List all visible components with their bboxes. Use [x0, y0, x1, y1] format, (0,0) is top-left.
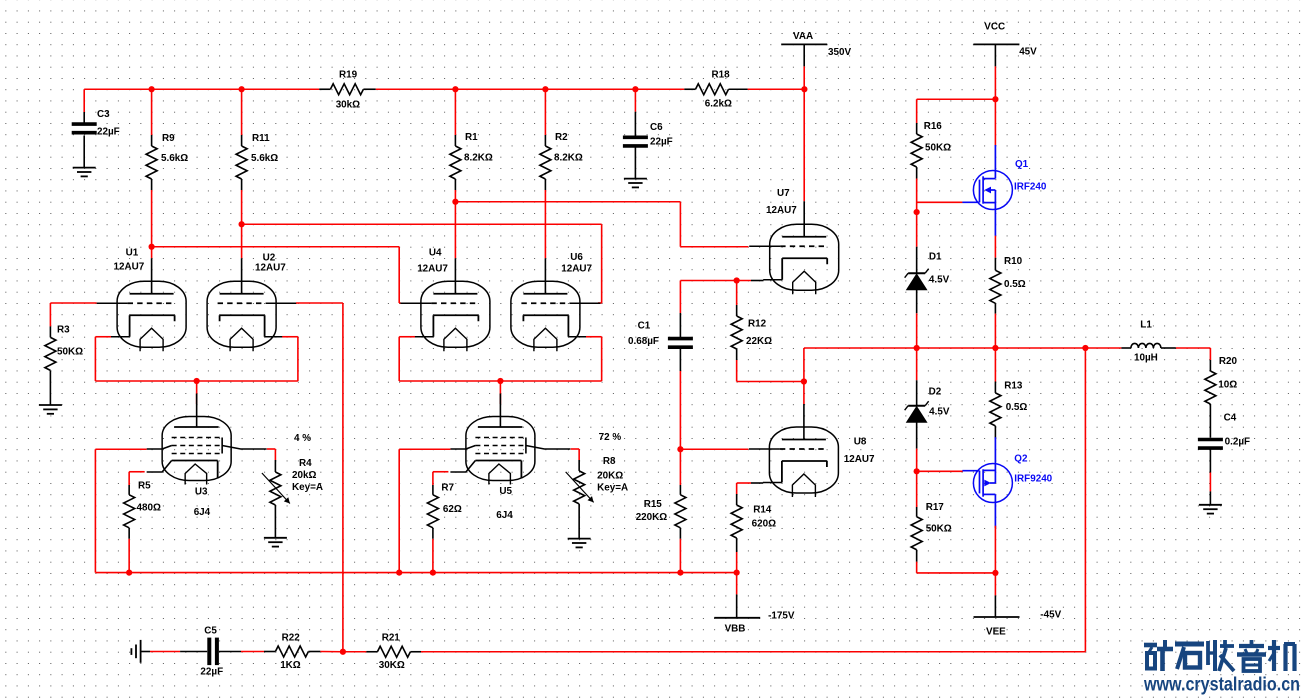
node R14-VBB on bus [734, 570, 740, 576]
svg-text:10µH: 10µH [1134, 353, 1158, 364]
svg-text:0.5Ω: 0.5Ω [1006, 402, 1028, 413]
ground for R4 [264, 537, 287, 539]
svg-text:C6: C6 [650, 122, 663, 133]
svg-text:72 %: 72 % [599, 432, 622, 443]
capacitor C3 [83, 89, 85, 112]
wire R17 to VEE rail [917, 572, 996, 574]
triode U1 12AU7 [117, 281, 186, 347]
svg-text:R14: R14 [753, 505, 772, 516]
svg-text:R20: R20 [1219, 356, 1238, 367]
svg-text:20kΩ: 20kΩ [292, 470, 316, 481]
svg-text:R4: R4 [299, 458, 312, 469]
wire R1 to U7 grid [455, 201, 680, 203]
wire R11 to U2 plate [241, 224, 243, 258]
resistor R16 [916, 99, 918, 123]
wire U3 grid right red tip [267, 448, 276, 450]
node VEE junction [992, 570, 998, 576]
svg-text:C1: C1 [638, 320, 651, 331]
wire C5 to R22 [241, 651, 264, 653]
resistor R12 [736, 281, 738, 306]
wire output to L1 [1085, 347, 1121, 349]
node U2 plate junction [239, 221, 245, 227]
triode U4 12AU7 [421, 281, 490, 347]
wire Q2 gate [917, 470, 963, 472]
pentode U5 6J4 [466, 417, 535, 481]
wire output line [917, 347, 1086, 349]
svg-text:6J4: 6J4 [194, 507, 211, 518]
wire U7 cathode node [680, 280, 751, 282]
triode U2 12AU7 [207, 281, 276, 347]
svg-text:U3: U3 [195, 486, 208, 497]
wire U3 grid left to bias rail [95, 448, 146, 450]
wire R12 to U8 plate [737, 381, 804, 383]
svg-text:220KΩ: 220KΩ [636, 512, 668, 523]
wire Q2 drain to VEE rail [994, 526, 996, 573]
svg-text:12AU7: 12AU7 [417, 263, 448, 274]
ground for C3 [73, 167, 96, 169]
svg-text:VCC: VCC [984, 22, 1005, 33]
resistor R5 [128, 472, 130, 485]
svg-text:C4: C4 [1224, 413, 1237, 424]
wire U8 plate to output line [803, 348, 805, 382]
svg-text:U8: U8 [854, 437, 867, 448]
node U8 plate junction [801, 378, 807, 384]
svg-text:R9: R9 [162, 133, 175, 144]
svg-text:22µF: 22µF [97, 127, 120, 138]
wire U1 plate to U4 grid [152, 246, 400, 248]
svg-text:R11: R11 [252, 133, 270, 144]
triode U8 12AU7 [769, 427, 838, 493]
svg-text:R18: R18 [712, 70, 731, 81]
svg-text:620Ω: 620Ω [752, 519, 776, 530]
svg-text:12AU7: 12AU7 [844, 454, 875, 465]
svg-text:R10: R10 [1004, 256, 1023, 267]
watermark crystalradio logo [1144, 640, 1295, 671]
MOSFET Q1 IRF240 [994, 99, 996, 145]
wire Q1 gate [917, 201, 963, 203]
svg-text:U1: U1 [126, 248, 139, 259]
svg-text:C5: C5 [204, 626, 217, 637]
resistor R7 [432, 472, 434, 485]
svg-text:45V: 45V [1019, 47, 1037, 58]
svg-text:22KΩ: 22KΩ [746, 336, 772, 347]
svg-text:R22: R22 [282, 633, 301, 644]
wire U2 plate to U6 grid [242, 223, 602, 225]
svg-text:R19: R19 [339, 70, 358, 81]
resistor R20 [1209, 348, 1211, 360]
wire U5 grid right red tip [571, 448, 579, 450]
svg-text:VAA: VAA [793, 31, 813, 42]
node U3 plate junction [194, 378, 200, 384]
svg-text:12AU7: 12AU7 [766, 205, 797, 216]
resistor R18 [684, 88, 695, 90]
power VEE -45V [994, 573, 996, 596]
svg-text:R5: R5 [138, 481, 151, 492]
node U7 cathode junction [734, 277, 740, 283]
svg-text:8.2KΩ: 8.2KΩ [554, 153, 583, 164]
node R1 bottom junction [452, 199, 458, 205]
MOSFET Q2 IRF9240 [973, 464, 1012, 503]
resistor R2 [544, 89, 546, 135]
svg-text:30KΩ: 30KΩ [379, 660, 405, 671]
wire R1 to U4 plate [454, 202, 456, 259]
triode U7 12AU7 [803, 89, 805, 201]
resistor R14 [736, 483, 738, 494]
resistor R9 [151, 89, 153, 135]
svg-text:IRF9240: IRF9240 [1014, 473, 1052, 484]
triode U6 12AU7 [511, 281, 580, 347]
svg-text:IRF240: IRF240 [1014, 182, 1047, 193]
svg-text:R21: R21 [382, 633, 401, 644]
node C1-R15-U8 grid junction [677, 446, 683, 452]
svg-text:VBB: VBB [725, 624, 746, 635]
pentode U3 6J4 [162, 417, 231, 481]
node U5 plate junction [497, 378, 503, 384]
zener diode D1 4.5V [916, 212, 918, 247]
resistor R13 [994, 348, 996, 382]
svg-text:0.5Ω: 0.5Ω [1004, 279, 1026, 290]
node R7 on bus [430, 570, 436, 576]
svg-text:L1: L1 [1140, 320, 1152, 331]
svg-text:4.5V: 4.5V [929, 407, 950, 418]
wire to R21 [343, 651, 367, 653]
svg-text:Q1: Q1 [1015, 159, 1029, 170]
svg-text:20KΩ: 20KΩ [597, 471, 623, 482]
node output R10-R13 [992, 345, 998, 351]
svg-text:4.5V: 4.5V [929, 274, 950, 285]
svg-text:350V: 350V [828, 47, 851, 58]
svg-text:R17: R17 [926, 502, 945, 513]
wire U5 plate lead [499, 381, 501, 404]
svg-text:-175V: -175V [768, 611, 795, 622]
inductor L1 10uH [1121, 347, 1131, 349]
capacitor C5 [180, 651, 207, 653]
svg-text:R8: R8 [603, 456, 616, 467]
power VAA [781, 43, 827, 45]
svg-text:R16: R16 [924, 121, 943, 132]
svg-text:50KΩ: 50KΩ [926, 524, 952, 535]
node VCC junction [992, 96, 998, 102]
node feedback junction [340, 649, 346, 655]
svg-text:12AU7: 12AU7 [255, 263, 286, 274]
node R5 on bus [126, 570, 132, 576]
node VAA junction [801, 86, 807, 92]
resistor R21 [366, 651, 377, 653]
svg-text:R15: R15 [644, 499, 663, 510]
wire U3 plate lead [196, 381, 198, 404]
resistor R1 [454, 89, 456, 135]
svg-text:U5: U5 [499, 486, 512, 497]
svg-text:5.6kΩ: 5.6kΩ [161, 153, 188, 164]
node output D-column [914, 345, 920, 351]
wire U8 cathode to R14 [737, 482, 751, 484]
node R16-D1 junction [914, 209, 920, 215]
resistor R10 [994, 236, 996, 258]
svg-text:50KΩ: 50KΩ [57, 347, 83, 358]
svg-text:R2: R2 [555, 132, 568, 143]
svg-text:VEE: VEE [986, 627, 1006, 638]
resistor R11 [241, 89, 243, 135]
capacitor C4 [1198, 438, 1223, 442]
wire U2 grid to feedback node [296, 302, 343, 304]
svg-text:6.2kΩ: 6.2kΩ [705, 99, 732, 110]
svg-text:22µF: 22µF [650, 137, 673, 148]
node U5 grid on bus [396, 570, 402, 576]
svg-text:22µF: 22µF [200, 667, 223, 678]
wire U3 cathode to R5 [129, 471, 145, 473]
svg-text:U4: U4 [429, 248, 442, 259]
ground for R8 [568, 538, 591, 540]
svg-text:50KΩ: 50KΩ [925, 143, 951, 154]
wire R9 to U1 plate [151, 247, 153, 259]
wire U4 cathode loop [399, 336, 415, 338]
power VBB -175V [736, 573, 738, 595]
svg-text:-45V: -45V [1040, 610, 1061, 621]
node D2-R17 junction [914, 468, 920, 474]
svg-text:U7: U7 [777, 188, 790, 199]
node R15 on bus [677, 570, 683, 576]
svg-text:R12: R12 [748, 319, 767, 330]
node U1 plate junction [149, 244, 155, 250]
wire bias rail VBB bus [95, 572, 736, 574]
svg-text:6J4: 6J4 [496, 510, 513, 521]
svg-text:R7: R7 [441, 482, 454, 493]
svg-text:Key=A: Key=A [597, 482, 628, 493]
wire feedback right leg [1084, 348, 1086, 652]
ground for C4 [1199, 504, 1222, 506]
svg-text:480Ω: 480Ω [137, 503, 161, 514]
zener diode D2 4.5V [916, 348, 918, 380]
potentiometer R4 20k [274, 449, 276, 460]
svg-text:Q2: Q2 [1014, 453, 1028, 464]
svg-text:5.6kΩ: 5.6kΩ [251, 153, 278, 164]
svg-text:R1: R1 [465, 132, 478, 143]
svg-text:R3: R3 [57, 325, 70, 336]
svg-text:1KΩ: 1KΩ [280, 660, 301, 671]
svg-text:4 %: 4 % [294, 433, 311, 444]
svg-text:www.crystalradio.cn: www.crystalradio.cn [1143, 675, 1300, 696]
resistor R17 [916, 471, 918, 507]
resistor R15 [679, 449, 681, 485]
input ground symbol [140, 640, 142, 663]
svg-text:U6: U6 [570, 252, 583, 263]
svg-text:D2: D2 [929, 387, 942, 398]
wire U5 cathode to R7 [433, 471, 449, 473]
capacitor C6 [634, 89, 636, 111]
svg-text:D1: D1 [929, 251, 942, 262]
resistor R22 [264, 651, 275, 653]
svg-text:12AU7: 12AU7 [561, 263, 592, 274]
wire U8 grid [680, 448, 748, 450]
svg-text:10Ω: 10Ω [1218, 380, 1237, 391]
svg-text:62Ω: 62Ω [443, 504, 462, 515]
node output feedback [1082, 345, 1088, 351]
svg-text:Key=A: Key=A [292, 482, 323, 493]
wire input to C5 [150, 651, 180, 653]
wire U5 grid left to bias rail [399, 448, 450, 450]
svg-text:12AU7: 12AU7 [114, 262, 145, 273]
power VCC 45V [973, 43, 1019, 45]
resistor R3 [49, 303, 51, 326]
ground for R3 [39, 404, 62, 406]
wire U1 grid to R3 [50, 302, 96, 304]
wire U8 plate lead [803, 382, 805, 405]
svg-text:R13: R13 [1004, 380, 1023, 391]
svg-text:30kΩ: 30kΩ [336, 100, 360, 111]
wire R22 to feedback node [320, 651, 343, 653]
svg-text:0.2µF: 0.2µF [1225, 437, 1250, 448]
svg-text:8.2KΩ: 8.2KΩ [464, 153, 493, 164]
wire U1 cathode loop [95, 336, 111, 338]
ground for C6 [624, 178, 647, 180]
wire VCC to R16 [917, 98, 996, 100]
wire top VAA bus y=89 [84, 88, 319, 90]
resistor R19 [319, 88, 330, 90]
svg-text:0.68µF: 0.68µF [628, 336, 659, 347]
svg-text:C3: C3 [97, 109, 110, 120]
capacitor C1 [679, 281, 681, 314]
potentiometer R8 20K [578, 449, 580, 460]
